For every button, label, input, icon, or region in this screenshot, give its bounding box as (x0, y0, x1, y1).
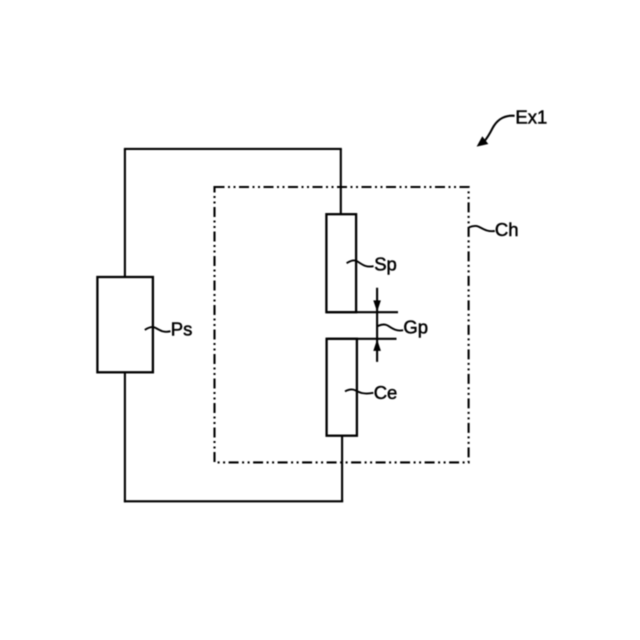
wire right vertical to Sp (340, 149, 342, 215)
gap arrowhead up (373, 339, 381, 351)
leader Sp (347, 260, 374, 266)
power source Ps (97, 277, 152, 372)
electrode Ce (327, 339, 357, 436)
wire top horizontal (124, 148, 342, 150)
wire from Ce bottom (341, 436, 343, 502)
chamber Ch boundary (dash-dot-dot) (215, 187, 469, 462)
svg-text:Sp: Sp (374, 253, 397, 274)
gap extension line top (326, 311, 398, 313)
svg-text:Ex1: Ex1 (515, 107, 547, 128)
gap extension line bottom (327, 338, 397, 340)
leader arrowhead Ex1 (477, 136, 489, 146)
leader Ps (145, 327, 171, 332)
wire left vertical (top) (124, 149, 126, 278)
svg-text:Ps: Ps (171, 318, 193, 339)
gap dimension line (376, 288, 378, 362)
svg-text:Gp: Gp (403, 316, 428, 337)
leader Ch (469, 226, 495, 231)
wire left vertical (bottom) (124, 372, 126, 502)
leader Gp (377, 324, 403, 330)
gap arrowhead down (373, 300, 381, 311)
leader Ce (345, 389, 373, 393)
leader arrow Ex1 curve (484, 116, 514, 142)
svg-text:Ce: Ce (374, 382, 398, 403)
electrode Sp (326, 214, 356, 312)
svg-text:Ch: Ch (495, 219, 519, 240)
wire bottom horizontal (124, 500, 343, 502)
